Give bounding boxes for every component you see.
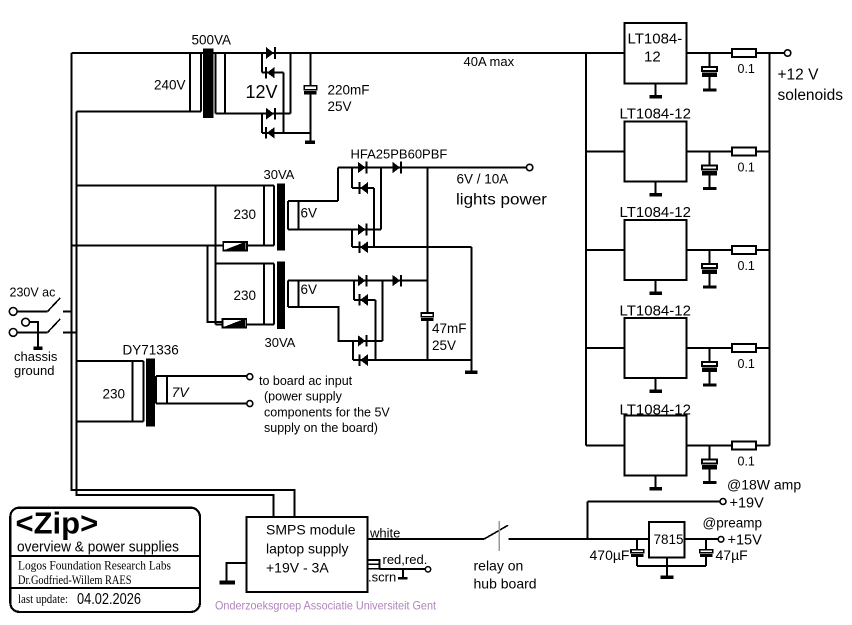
svg-text:(power supply: (power supply xyxy=(264,390,343,404)
wire: B1 D5 anode drop xyxy=(351,168,353,189)
wire: rail to U4 input xyxy=(586,347,624,349)
transformer T4 secondary 7V winding xyxy=(156,376,247,403)
ground: 7815 ground xyxy=(661,576,674,579)
wire: U5 output xyxy=(686,445,732,447)
wire: R1 to +12V rail and output terminal xyxy=(756,52,784,54)
wire: 7815 ground bus xyxy=(637,565,706,567)
capacitor C6 (U5 output) xyxy=(702,446,717,482)
ground: C1 ground xyxy=(305,141,315,144)
ground: screen ground xyxy=(398,569,408,580)
svg-text:HFA25PB60PBF: HFA25PB60PBF xyxy=(351,147,448,162)
switch S1 blade xyxy=(48,298,61,312)
wire: main +V top rail from mains rail A to U1 input xyxy=(72,52,625,54)
relay K1 actuator xyxy=(498,521,500,551)
wire: rail to U2 input xyxy=(586,151,624,153)
transformer T3 secondary 6V loop xyxy=(288,281,298,307)
power module PS1 SMPS laptop supply xyxy=(247,517,368,592)
wire: B2 cathode column b xyxy=(381,281,383,341)
wire: D3 anode drop xyxy=(261,114,263,133)
wire: T2 secondary top riser xyxy=(337,168,339,202)
diode D10 (B2 top) xyxy=(358,275,367,287)
wire: rail to U3 input xyxy=(586,249,624,251)
wire: U3 output xyxy=(686,249,732,251)
svg-text:25V: 25V xyxy=(328,99,352,114)
wire: U2 output xyxy=(686,151,732,153)
terminal: board ac output top xyxy=(247,374,253,380)
diode D3 (500VA bridge, on secondary bottom) xyxy=(266,108,275,120)
svg-text:25V: 25V xyxy=(432,338,456,353)
ground: C3 ground xyxy=(703,187,717,190)
wire: +V distribution rail (left of regulators) xyxy=(585,53,587,446)
wire: mains rail A (left vertical) xyxy=(72,53,295,517)
wire: B1 second row xyxy=(352,187,374,189)
voltage regulator U1 LT1084-12 xyxy=(624,23,686,84)
svg-text:Logos Foundation Research Labs: Logos Foundation Research Labs xyxy=(18,558,171,573)
transformer T1 secondary 12V loop xyxy=(216,53,291,114)
svg-text:@18W amp: @18W amp xyxy=(727,477,801,493)
svg-text:12: 12 xyxy=(644,49,661,66)
svg-text:230V ac: 230V ac xyxy=(10,286,56,300)
node: 47mF 25V value label xyxy=(432,321,467,353)
wire: B1 minus row to ground column xyxy=(352,246,472,248)
svg-text:40A max: 40A max xyxy=(464,54,515,69)
transformer T2 primary 230 loop xyxy=(215,186,274,264)
svg-text:supply on the board): supply on the board) xyxy=(264,421,378,435)
connector: red,red output plug xyxy=(368,560,380,569)
wire: minus bus row xyxy=(353,359,471,361)
wire: PS1 chassis lead xyxy=(227,563,247,581)
ground: U4 ground tab xyxy=(650,378,663,393)
capacitor C2 (U1 output) xyxy=(702,53,717,89)
svg-text:0.1: 0.1 xyxy=(738,62,755,76)
voltage regulator U5 LT1084-12 xyxy=(624,416,686,476)
switch S2 blade xyxy=(48,319,61,333)
wire: B2 second row xyxy=(354,299,376,301)
svg-text:<Zip>: <Zip> xyxy=(16,506,99,541)
capacitor C8 470uF xyxy=(631,539,644,566)
svg-text:chassis: chassis xyxy=(14,349,58,364)
diode D7 (B1) xyxy=(359,182,367,194)
wire: B1 cathode column a xyxy=(373,188,375,247)
ground: PS1 ground xyxy=(220,581,236,585)
wire: B2 bottom row xyxy=(339,340,383,342)
diode D8 (B1 bottom) xyxy=(358,224,367,236)
voltage regulator U6 7815 xyxy=(649,522,684,557)
diode D4 (500VA bridge) xyxy=(266,127,274,139)
transformer T3 primary 230 loop xyxy=(215,263,274,324)
transformer T4 primary 230 loop xyxy=(77,361,144,421)
diode D14 (B2) xyxy=(359,354,367,366)
resistor R2 0.1 xyxy=(732,148,756,175)
capacitor C5 (U4 output) xyxy=(702,348,717,384)
svg-text:+19V - 3A: +19V - 3A xyxy=(266,560,329,576)
svg-text:LT1084-12: LT1084-12 xyxy=(620,106,691,123)
svg-text:500VA: 500VA xyxy=(192,33,232,48)
svg-text:47mF: 47mF xyxy=(432,321,467,336)
node: 220mF 25V value label xyxy=(328,83,370,115)
wire: +19V white lead to relay xyxy=(368,538,484,540)
wire: 7815 output xyxy=(685,538,718,540)
terminal: mains input L xyxy=(9,308,17,316)
ground: U2 ground tab xyxy=(650,182,663,197)
svg-text:7V: 7V xyxy=(172,384,191,400)
wire: +19V branch riser xyxy=(586,502,588,540)
transformer T1 primary loop 240V xyxy=(77,53,201,111)
wire: mains rail B (left vertical) xyxy=(77,111,274,517)
transformer T3 core xyxy=(277,262,285,329)
wire: rectified +6V column to C7 xyxy=(426,168,428,314)
svg-text:LT1084-12: LT1084-12 xyxy=(620,204,691,221)
wire: top rail to C1 xyxy=(309,53,311,86)
wire: D4 row to capacitor xyxy=(262,132,310,134)
relay contact K1 blade xyxy=(484,525,508,539)
svg-text:220mF: 220mF xyxy=(328,83,370,98)
transformer T4 core xyxy=(146,359,155,427)
wire: branch to T3 primary bottom xyxy=(207,246,222,322)
wire: B1 D8 anode drop xyxy=(351,230,353,248)
node: last update date xyxy=(18,591,141,608)
wire: R3 to +12V rail xyxy=(756,249,770,251)
svg-text:0.1: 0.1 xyxy=(738,357,755,371)
wire: 7815 ground lead xyxy=(666,557,668,575)
terminal: red lead terminal xyxy=(425,567,430,572)
svg-text:230: 230 xyxy=(234,207,257,222)
voltage regulator U3 LT1084-12 xyxy=(624,220,686,280)
svg-text:0.1: 0.1 xyxy=(738,455,755,469)
wire: relay output to 7815 input xyxy=(509,538,650,540)
wire: R2 to +12V rail xyxy=(756,151,770,153)
capacitor C3 (U2 output) xyxy=(702,152,717,188)
svg-text:0.1: 0.1 xyxy=(738,161,755,175)
diode D9 (B1) xyxy=(359,241,367,253)
svg-text:+19V: +19V xyxy=(730,496,765,512)
node: +12 V solenoids label xyxy=(778,67,844,105)
wire: input N to switch S2 xyxy=(17,331,47,333)
node: to board ac input note xyxy=(259,374,390,435)
wire: +12V output rail (right of resistors) xyxy=(769,53,771,446)
voltage regulator U4 LT1084-12 xyxy=(624,318,686,378)
terminal: +15V output xyxy=(718,537,724,543)
wire: minus column from B1 row to ground xyxy=(470,247,472,370)
diode D1 (500VA bridge, top) xyxy=(266,47,275,59)
svg-text:red,red.: red,red. xyxy=(383,552,428,567)
wire: rail B to T2 primary top xyxy=(77,185,216,187)
transformer T2 secondary 6V loop xyxy=(288,201,338,230)
wire: D1 anode drop xyxy=(261,53,263,73)
svg-text:SMPS module: SMPS module xyxy=(266,522,356,538)
svg-text:relay on: relay on xyxy=(474,558,524,574)
svg-text:240V: 240V xyxy=(154,78,186,93)
wire: T2 secondary bottom row (bridge B1) xyxy=(288,229,381,231)
svg-text:12V: 12V xyxy=(246,82,278,102)
svg-text:LT1084-12: LT1084-12 xyxy=(620,303,691,320)
ground: U5 ground tab xyxy=(650,476,663,491)
svg-text:laptop supply: laptop supply xyxy=(266,541,349,557)
resistor R4 0.1 xyxy=(732,344,756,371)
wire: rail to U5 input xyxy=(586,445,624,447)
svg-text:230: 230 xyxy=(234,288,257,303)
fuse/tap flag on T3 primary xyxy=(222,319,246,328)
svg-text:last update:: last update: xyxy=(18,592,68,606)
svg-text:470µF: 470µF xyxy=(590,547,630,563)
svg-text:ground: ground xyxy=(14,363,54,378)
terminal: board ac output bottom xyxy=(247,401,253,407)
svg-text:30VA: 30VA xyxy=(265,335,296,350)
svg-text:6V / 10A: 6V / 10A xyxy=(457,172,509,187)
wire: U4 output xyxy=(686,347,732,349)
wire: U1 output xyxy=(686,52,732,54)
svg-text:04.02.2026: 04.02.2026 xyxy=(77,591,141,608)
svg-text:solenoids: solenoids xyxy=(778,87,844,104)
terminal: chassis ground tap xyxy=(22,318,30,326)
diode D5 (B1 top) xyxy=(358,162,367,174)
svg-text:Onderzoeksgroep Associatie Uni: Onderzoeksgroep Associatie Universiteit … xyxy=(215,599,437,613)
wire: S2 stub to rail B xyxy=(63,331,78,333)
ground: U3 ground tab xyxy=(650,280,663,295)
node: relay on hub board label xyxy=(474,558,537,592)
ground: U1 ground tab xyxy=(650,84,663,99)
transformer T1 core xyxy=(203,49,213,118)
resistor R1 0.1 xyxy=(732,49,756,76)
wire: D2 row xyxy=(262,72,284,74)
diode D13 (B2 bottom) xyxy=(358,335,367,347)
wire: D2/D4 cathode column xyxy=(283,73,285,133)
wire: chassis tap to ground xyxy=(30,322,38,346)
svg-text:Dr.Godfried-Willem RAES: Dr.Godfried-Willem RAES xyxy=(18,572,132,587)
capacitor C1 220mF 25V xyxy=(304,86,316,141)
wire: T3 secondary bottom jog xyxy=(288,307,358,341)
svg-text:lights power: lights power xyxy=(456,192,547,209)
svg-text:6V: 6V xyxy=(301,282,318,297)
diode D6 (B1 top, series) xyxy=(392,162,401,174)
resistor R3 0.1 xyxy=(732,246,756,273)
capacitor C9 47uF xyxy=(700,539,713,566)
fuse/tap flag on T2 primary xyxy=(223,242,247,251)
svg-text:DY71336: DY71336 xyxy=(123,343,179,358)
ground: C2 ground xyxy=(703,89,717,92)
svg-text:47µF: 47µF xyxy=(716,547,748,563)
svg-text:0.1: 0.1 xyxy=(738,259,755,273)
diode D12 (B2) xyxy=(359,294,367,306)
wire: bridge B2 top row xyxy=(288,280,427,282)
svg-text:.scrn: .scrn xyxy=(368,570,396,585)
wire: R5 to +12V rail xyxy=(756,445,770,447)
resistor R5 0.1 xyxy=(732,442,756,469)
capacitor C4 (U3 output) xyxy=(702,250,717,286)
title block frame xyxy=(10,508,200,612)
wire: B1 cathode column b xyxy=(380,168,382,230)
svg-text:overview & power supplies: overview & power supplies xyxy=(17,540,179,556)
voltage regulator U2 LT1084-12 xyxy=(624,122,686,182)
svg-text:230: 230 xyxy=(103,387,126,402)
terminal: +12V solenoids output xyxy=(784,50,790,56)
terminal: 6V / 10A lights power output xyxy=(526,164,532,170)
wire: input L to switch S1 xyxy=(17,310,47,312)
svg-text:hub board: hub board xyxy=(474,576,537,592)
svg-text:30VA: 30VA xyxy=(264,167,295,182)
ground: chassis ground symbol xyxy=(34,347,43,350)
wire: S1 stub to rail A xyxy=(63,310,72,312)
wire: bridge B1 top row to lights terminal xyxy=(338,167,526,169)
svg-text:+15V: +15V xyxy=(728,533,763,549)
capacitor C7 47mF 25V xyxy=(421,313,433,360)
svg-text:LT1084-: LT1084- xyxy=(628,31,683,48)
wire: rail A to T2 primary bottom xyxy=(72,245,275,247)
ground: lights supply ground xyxy=(465,371,478,374)
node: chassis ground label xyxy=(14,349,58,378)
wire: +19V feed to terminal xyxy=(587,501,719,503)
svg-text:7815: 7815 xyxy=(654,532,684,547)
ground: C5 ground xyxy=(703,384,717,387)
ground: C4 ground xyxy=(703,286,717,289)
wire: B2 cathode column a xyxy=(375,300,377,360)
svg-text:+12 V: +12 V xyxy=(778,67,820,84)
diode D11 (B2 top, series) xyxy=(392,275,401,287)
wire: B2 D13 anode drop xyxy=(352,341,354,360)
svg-text:components for the 5V: components for the 5V xyxy=(264,405,390,419)
svg-text:to board ac input: to board ac input xyxy=(259,374,353,388)
svg-text:6V: 6V xyxy=(301,206,318,221)
ground: C6 ground xyxy=(703,481,717,484)
diode D2 (500VA bridge) xyxy=(266,67,274,79)
terminal: mains input N xyxy=(9,329,17,337)
wire: B2 D10 anode drop xyxy=(353,281,355,300)
terminal: +19V output xyxy=(720,499,726,505)
wire: R4 to +12V rail xyxy=(756,347,770,349)
wire: red leads to terminal xyxy=(380,568,426,570)
transformer T2 core xyxy=(277,183,285,250)
svg-text:@preamp: @preamp xyxy=(703,516,762,531)
